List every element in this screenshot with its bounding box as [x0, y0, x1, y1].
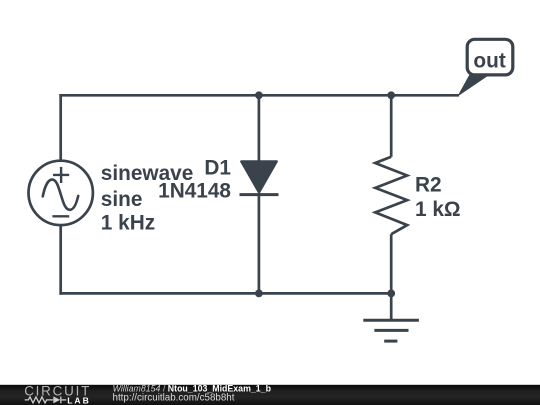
junction dot top resistor — [387, 91, 395, 99]
svg-text:R2: R2 — [415, 174, 442, 197]
svg-text:1 kHz: 1 kHz — [101, 212, 155, 235]
junction dot bottom ground — [387, 290, 395, 298]
footer logo wire with resistor and diode — [25, 397, 66, 404]
wire resistor branch lower — [390, 234, 393, 293]
diode D1 triangle — [241, 161, 277, 192]
wire diode branch upper — [258, 95, 261, 162]
voltage source V1 circle — [29, 161, 93, 225]
svg-text:1 kΩ: 1 kΩ — [415, 198, 461, 221]
svg-text:D1: D1 — [204, 156, 231, 179]
junction dot bottom diode — [255, 290, 263, 298]
voltage source V1 minus sign — [52, 215, 69, 217]
diode D1 cathode bar — [240, 193, 279, 196]
svg-text:LAB: LAB — [67, 395, 91, 405]
svg-text:sine: sine — [101, 188, 143, 211]
wire top horizontal — [59, 94, 459, 97]
wire ground stub — [390, 293, 393, 320]
voltage source V1 plus sign — [53, 167, 69, 183]
wire bottom horizontal — [59, 292, 391, 295]
voltage source V1 sine squiggle — [43, 180, 78, 210]
svg-text:http://circuitlab.com/c58b8ht: http://circuitlab.com/c58b8ht — [113, 393, 235, 404]
wire diode branch lower — [258, 195, 261, 294]
node out flag bubble — [467, 39, 513, 75]
ground symbol — [363, 320, 419, 341]
resistor R2 zigzag — [375, 157, 407, 234]
footer logo diode triangle — [53, 396, 60, 403]
wire resistor branch upper — [390, 95, 393, 157]
junction dot top diode — [255, 91, 263, 99]
svg-text:out: out — [473, 50, 505, 73]
wire left vertical upper — [59, 94, 62, 161]
node out flag tail — [457, 75, 489, 97]
svg-text:1N4148: 1N4148 — [158, 180, 231, 203]
wire left vertical lower — [59, 225, 62, 294]
